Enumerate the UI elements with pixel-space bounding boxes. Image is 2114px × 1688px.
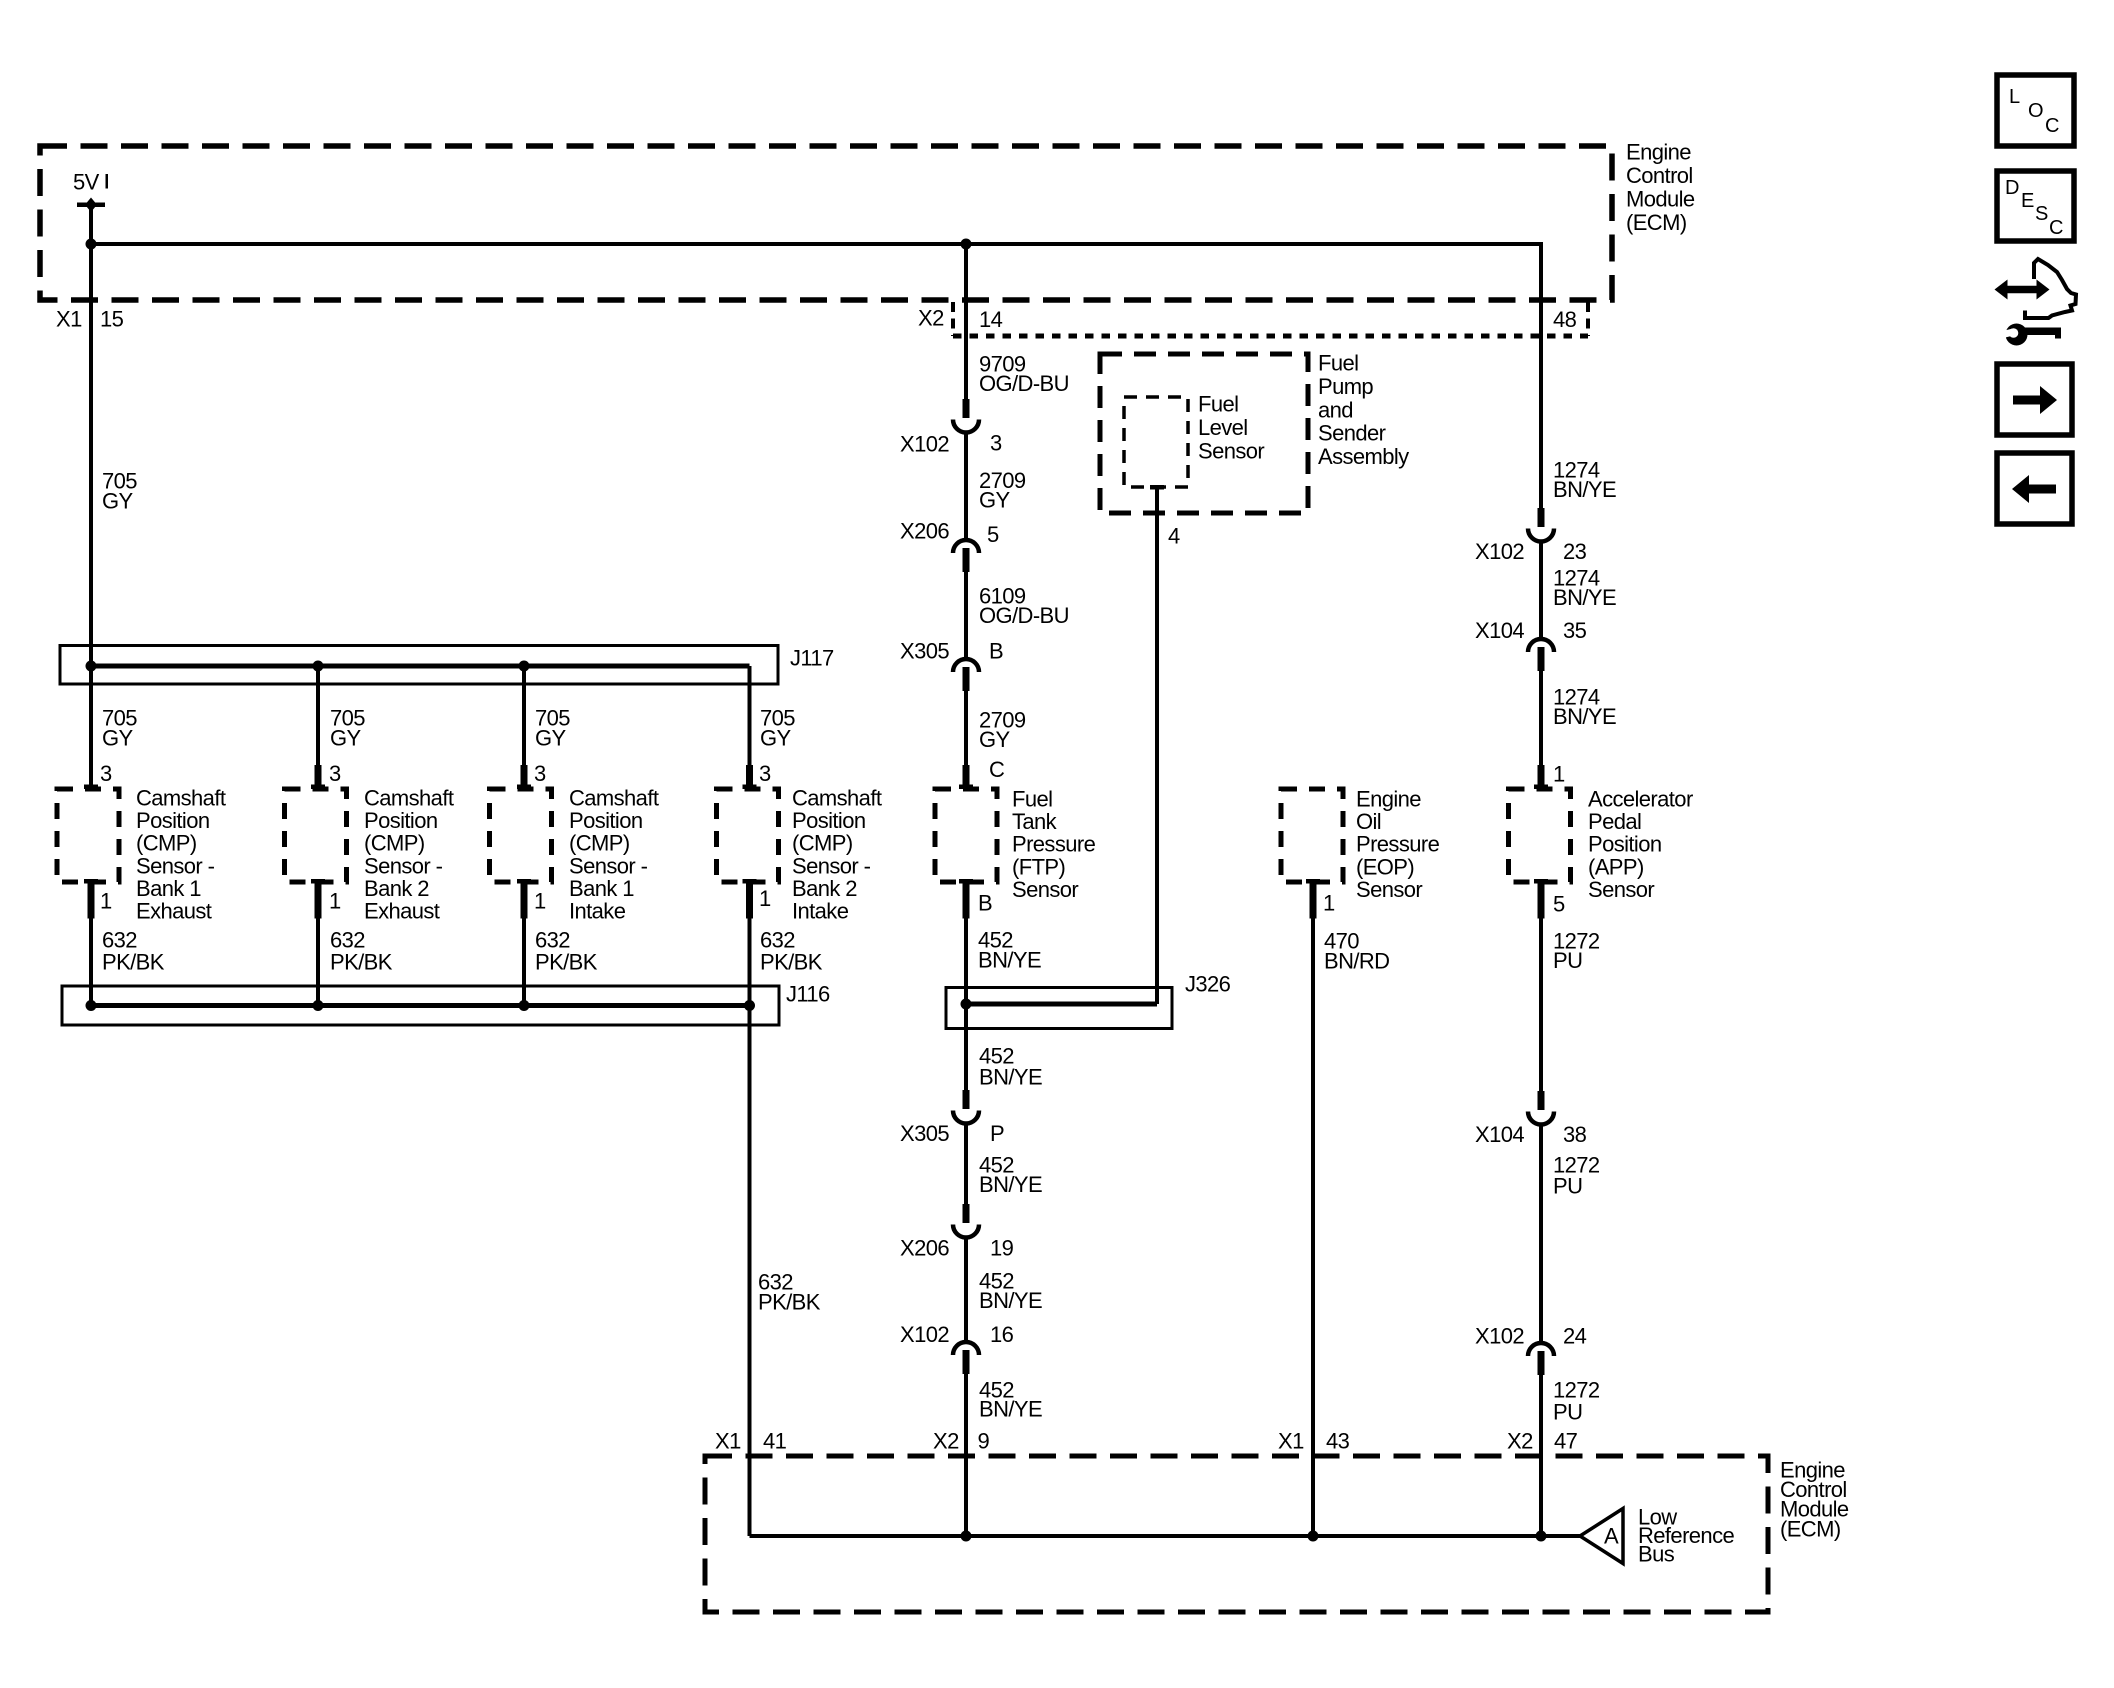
svg-text:(CMP): (CMP) bbox=[569, 831, 630, 856]
svg-text:41: 41 bbox=[763, 1429, 787, 1454]
svg-text:X102: X102 bbox=[900, 432, 949, 457]
svg-text:GY: GY bbox=[760, 726, 792, 751]
svg-text:P: P bbox=[990, 1121, 1004, 1146]
svg-text:OG/D-BU: OG/D-BU bbox=[979, 371, 1069, 396]
pin label X206 19 bbox=[900, 1236, 1014, 1261]
svg-text:B: B bbox=[978, 891, 992, 916]
svg-text:35: 35 bbox=[1563, 618, 1587, 643]
svg-text:4: 4 bbox=[1168, 524, 1180, 549]
module ECM bottom (dashed box) bbox=[705, 1456, 1768, 1612]
label CMP Sensor Bank 1 Intake bbox=[569, 786, 659, 924]
svg-text:Position: Position bbox=[792, 808, 865, 833]
module ECM top (dashed box) bbox=[40, 146, 1612, 300]
svg-text:X305: X305 bbox=[900, 1121, 949, 1146]
svg-text:Position: Position bbox=[1588, 832, 1661, 857]
wire 1274 BN/YE X102 to X104 bbox=[1539, 542, 1543, 639]
node junction J117 wire1 bbox=[86, 661, 97, 672]
svg-text:Camshaft: Camshaft bbox=[364, 786, 454, 811]
svg-text:Sensor -: Sensor - bbox=[364, 853, 443, 878]
wire 705 GY J117 to CMP2 bbox=[311, 666, 325, 789]
svg-text:X1: X1 bbox=[56, 307, 82, 332]
svg-text:(ECM): (ECM) bbox=[1780, 1516, 1841, 1541]
svg-text:and: and bbox=[1318, 397, 1353, 422]
label wire 705 GY at CMP1 bbox=[102, 706, 137, 751]
svg-text:(ECM): (ECM) bbox=[1626, 210, 1687, 235]
module Fuel Pump and Sender Assembly (dashed box) bbox=[1100, 354, 1308, 513]
pin label X305 P bbox=[900, 1121, 1004, 1146]
svg-text:Bank 2: Bank 2 bbox=[364, 876, 429, 901]
svg-text:Intake: Intake bbox=[792, 899, 849, 924]
splice J326 (bus bar) bbox=[946, 988, 1172, 1029]
svg-text:(CMP): (CMP) bbox=[364, 831, 425, 856]
label Fuel Pump and Sender Assembly bbox=[1318, 351, 1409, 470]
pin X1 43 label (bottom ECM) bbox=[1278, 1429, 1350, 1454]
label wire 1274 BN/YE upper bbox=[1553, 458, 1616, 503]
label FTP Sensor bbox=[1012, 787, 1096, 902]
icon button next (right arrow) bbox=[1997, 364, 2072, 435]
svg-text:X104: X104 bbox=[1475, 618, 1524, 643]
svg-text:Pedal: Pedal bbox=[1588, 809, 1641, 834]
pin label X305 B bbox=[900, 639, 1003, 664]
wire 452 BN/YE from fuel level sensor bbox=[1155, 489, 1159, 1004]
svg-text:15: 15 bbox=[100, 307, 124, 332]
svg-text:X102: X102 bbox=[1475, 539, 1524, 564]
label wire 6109 OG/D-BU bbox=[979, 584, 1069, 629]
label wire 470 BN/RD bbox=[1324, 929, 1389, 974]
svg-text:Bank 2: Bank 2 bbox=[792, 876, 857, 901]
icon button DESC bbox=[1997, 171, 2074, 241]
svg-text:PU: PU bbox=[1553, 1174, 1582, 1199]
label EOP Sensor bbox=[1356, 787, 1440, 902]
svg-text:3: 3 bbox=[329, 761, 341, 786]
svg-text:Camshaft: Camshaft bbox=[136, 786, 226, 811]
icon wrench bbox=[1998, 324, 2061, 346]
wire 9709 OG/D-BU from X2-14 bbox=[964, 246, 968, 400]
svg-text:BN/YE: BN/YE bbox=[1553, 585, 1616, 610]
node junction J326 bbox=[961, 999, 972, 1010]
wire 632 PK/BK CMP4 to J116 and ECM X1-41 bbox=[743, 879, 757, 1536]
label wire 452 BN/YE bbox=[979, 1153, 1042, 1198]
node junction bus X2-9 bbox=[961, 1531, 972, 1542]
svg-text:(EOP): (EOP) bbox=[1356, 854, 1414, 879]
label wire 705 GY at CMP3 bbox=[535, 706, 570, 751]
svg-text:J117: J117 bbox=[790, 646, 834, 671]
svg-text:C: C bbox=[2049, 217, 2063, 239]
sensor CMP Bank 1 Intake (dashed box) bbox=[490, 789, 552, 882]
label CMP Sensor Bank 1 Exhaust bbox=[136, 786, 226, 924]
label wire 2709 GY lower bbox=[979, 708, 1026, 753]
icon button LOC bbox=[1997, 75, 2074, 146]
node junction J117 wire3 bbox=[519, 661, 530, 672]
connector X102 pin 24 (inline) bbox=[1528, 1343, 1554, 1375]
label Fuel Level Sensor bbox=[1198, 392, 1264, 464]
svg-text:19: 19 bbox=[990, 1236, 1014, 1261]
pin label X102 23 bbox=[1475, 539, 1587, 564]
connector X2 face (dotted bracket) bbox=[953, 302, 1588, 336]
svg-text:PK/BK: PK/BK bbox=[330, 950, 393, 975]
svg-text:X2: X2 bbox=[918, 306, 944, 331]
wire 1272 PU X102 to ECM X2-47 bbox=[1539, 1373, 1543, 1536]
svg-text:43: 43 bbox=[1326, 1429, 1350, 1454]
splice J117 (bus bar) bbox=[60, 646, 778, 685]
connector X104 pin 38 (inline) bbox=[1528, 1091, 1554, 1125]
svg-text:GY: GY bbox=[979, 488, 1011, 513]
wire 452 BN/YE X206 to X102 bbox=[964, 1238, 968, 1342]
svg-text:PU: PU bbox=[1553, 1400, 1582, 1425]
svg-text:Tank: Tank bbox=[1012, 809, 1058, 834]
svg-text:BN/YE: BN/YE bbox=[979, 1397, 1042, 1422]
svg-text:Pump: Pump bbox=[1318, 374, 1373, 399]
svg-text:Module: Module bbox=[1626, 187, 1695, 212]
svg-text:Fuel: Fuel bbox=[1318, 351, 1358, 376]
svg-text:1: 1 bbox=[1553, 762, 1565, 787]
svg-text:Camshaft: Camshaft bbox=[569, 786, 659, 811]
svg-text:GY: GY bbox=[102, 726, 134, 751]
svg-text:BN/YE: BN/YE bbox=[1553, 477, 1616, 502]
label wire 705 GY at CMP2 bbox=[330, 706, 365, 751]
label wire 632 PK/BK CMP3 bbox=[535, 928, 598, 975]
wire 705 GY J117 to CMP4 bbox=[743, 666, 757, 789]
terminal CMP1 pin 3 bbox=[84, 785, 98, 790]
svg-text:Sensor -: Sensor - bbox=[569, 853, 648, 878]
svg-text:BN/YE: BN/YE bbox=[979, 1172, 1042, 1197]
svg-text:Fuel: Fuel bbox=[1198, 392, 1238, 417]
pin label X102 3 bbox=[900, 431, 1002, 457]
label Engine Control Module (ECM) bottom bbox=[1780, 1458, 1849, 1542]
svg-text:GY: GY bbox=[979, 727, 1011, 752]
svg-text:E: E bbox=[2021, 190, 2034, 212]
svg-text:Position: Position bbox=[569, 808, 642, 833]
wire 1274 BN/YE from X2-48 (corner) bbox=[1539, 242, 1541, 246]
svg-text:Position: Position bbox=[364, 808, 437, 833]
svg-text:Sensor -: Sensor - bbox=[136, 853, 215, 878]
wire 452 BN/YE FTP to J326 bbox=[959, 879, 973, 1090]
svg-text:9: 9 bbox=[978, 1429, 990, 1454]
node junction J116 wire4 bbox=[744, 1000, 755, 1011]
label wire 632 PK/BK to ECM bbox=[758, 1270, 821, 1315]
svg-text:C: C bbox=[989, 757, 1005, 782]
svg-text:Level: Level bbox=[1198, 415, 1248, 440]
svg-text:X1: X1 bbox=[715, 1429, 741, 1454]
pin label X104 35 bbox=[1475, 618, 1587, 643]
node junction bus X2-47 bbox=[1536, 1531, 1547, 1542]
label wire 1272 PU middle bbox=[1553, 1153, 1600, 1199]
label wire 1272 PU lower bbox=[1553, 1378, 1600, 1425]
connector X102 pin 16 (inline) bbox=[953, 1342, 979, 1374]
svg-text:23: 23 bbox=[1563, 539, 1587, 564]
pin X2 9 label (bottom ECM) bbox=[933, 1429, 990, 1454]
svg-text:5: 5 bbox=[987, 522, 999, 547]
svg-text:1: 1 bbox=[759, 886, 771, 911]
svg-text:X206: X206 bbox=[900, 519, 949, 544]
label wire 632 PK/BK CMP4 bbox=[760, 928, 823, 975]
wire 705 GY J117 to CMP3 bbox=[517, 666, 531, 789]
svg-text:Camshaft: Camshaft bbox=[792, 786, 882, 811]
svg-text:Accelerator: Accelerator bbox=[1588, 787, 1693, 812]
svg-text:48: 48 bbox=[1553, 307, 1577, 332]
icon button previous (left arrow) bbox=[1997, 453, 2072, 524]
svg-text:Bus: Bus bbox=[1638, 1541, 1675, 1566]
svg-text:(CMP): (CMP) bbox=[136, 831, 197, 856]
svg-text:Oil: Oil bbox=[1356, 809, 1381, 834]
component Fuel Level Sensor (dashed box) bbox=[1124, 397, 1188, 487]
svg-text:3: 3 bbox=[100, 761, 112, 786]
node junction J117 wire2 bbox=[313, 661, 324, 672]
svg-text:Exhaust: Exhaust bbox=[136, 899, 212, 924]
svg-text:Exhaust: Exhaust bbox=[364, 899, 440, 924]
pin X1 41 label (bottom ECM) bbox=[715, 1429, 787, 1454]
wire 5V feed drop bbox=[89, 205, 93, 244]
power 5V supply symbol bbox=[73, 170, 108, 213]
connector X102 pin 23 (inline) bbox=[1528, 508, 1554, 542]
svg-text:Control: Control bbox=[1626, 163, 1693, 188]
svg-text:1: 1 bbox=[100, 889, 112, 914]
label wire 9709 OG/D-BU bbox=[979, 352, 1069, 397]
splice J116 (bus bar) bbox=[62, 986, 779, 1025]
svg-text:D: D bbox=[2005, 177, 2019, 199]
wire low reference bus (horizontal) bbox=[750, 1534, 1581, 1538]
svg-text:1: 1 bbox=[1323, 891, 1335, 916]
svg-text:PK/BK: PK/BK bbox=[758, 1290, 821, 1315]
terminal fuel level sensor pin 4 bbox=[1150, 485, 1164, 490]
wire 452 BN/YE X305 to X206 bbox=[964, 1124, 968, 1205]
pin label X104 38 bbox=[1475, 1122, 1587, 1147]
label wire 632 PK/BK CMP1 bbox=[102, 928, 165, 975]
wire 632 PK/BK CMP3 to J116 bbox=[517, 879, 531, 1006]
svg-text:Bank 1: Bank 1 bbox=[136, 876, 201, 901]
svg-text:Sensor: Sensor bbox=[1012, 877, 1078, 902]
label wire 632 PK/BK CMP2 bbox=[330, 928, 393, 975]
svg-text:X102: X102 bbox=[900, 1322, 949, 1347]
connector X102 pin 3 (inline) bbox=[953, 399, 979, 433]
label APP Sensor bbox=[1588, 787, 1693, 902]
svg-text:3: 3 bbox=[759, 761, 771, 786]
svg-text:C: C bbox=[2045, 115, 2059, 137]
svg-text:X102: X102 bbox=[1475, 1324, 1524, 1349]
label wire 452 BN/YE below J326 bbox=[979, 1044, 1042, 1090]
svg-text:(APP): (APP) bbox=[1588, 854, 1644, 879]
node junction J116 wire2 bbox=[313, 1000, 324, 1011]
label CMP Sensor Bank 2 Exhaust bbox=[364, 786, 454, 924]
svg-text:B: B bbox=[989, 639, 1003, 664]
label Low Reference Bus bbox=[1638, 1505, 1734, 1567]
connector X305 pin B (inline) bbox=[953, 659, 979, 691]
svg-text:Sensor -: Sensor - bbox=[792, 853, 871, 878]
svg-text:Sensor: Sensor bbox=[1356, 877, 1422, 902]
svg-text:X1: X1 bbox=[1278, 1429, 1304, 1454]
sensor CMP Bank 2 Exhaust (dashed box) bbox=[285, 789, 347, 882]
svg-text:O: O bbox=[2028, 100, 2043, 122]
svg-text:(CMP): (CMP) bbox=[792, 831, 853, 856]
pin X2 47 label (bottom ECM) bbox=[1507, 1429, 1578, 1454]
svg-text:BN/YE: BN/YE bbox=[978, 948, 1041, 973]
pin label X102 24 bbox=[1475, 1324, 1587, 1349]
sensor CMP Bank 2 Intake (dashed box) bbox=[717, 789, 779, 882]
svg-text:Fuel: Fuel bbox=[1012, 787, 1052, 812]
wire 1274 BN/YE X104 to APP sensor bbox=[1534, 669, 1548, 789]
svg-text:A: A bbox=[1604, 1524, 1619, 1549]
svg-text:GY: GY bbox=[102, 489, 134, 514]
wire 2709 GY X305 to FTP sensor bbox=[959, 689, 973, 789]
label wire 705 GY at CMP4 bbox=[760, 706, 795, 751]
svg-text:J116: J116 bbox=[786, 982, 830, 1007]
sensor CMP Bank 1 Exhaust (dashed box) bbox=[57, 789, 119, 882]
wire 2709 GY X102 to X206 bbox=[964, 433, 968, 540]
node junction J116 wire3 bbox=[519, 1000, 530, 1011]
svg-text:J326: J326 bbox=[1185, 972, 1231, 997]
node junction bus X1-43 bbox=[1308, 1531, 1319, 1542]
svg-text:X2: X2 bbox=[933, 1429, 959, 1454]
svg-text:3: 3 bbox=[534, 761, 546, 786]
svg-text:(FTP): (FTP) bbox=[1012, 854, 1065, 879]
svg-text:38: 38 bbox=[1563, 1122, 1587, 1147]
svg-text:Intake: Intake bbox=[569, 899, 626, 924]
svg-text:Sender: Sender bbox=[1318, 421, 1386, 446]
pin label X102 16 bbox=[900, 1322, 1014, 1347]
svg-text:X2: X2 bbox=[1507, 1429, 1533, 1454]
svg-text:OG/D-BU: OG/D-BU bbox=[979, 603, 1069, 628]
wire 6109 OG/D-BU X206 to X305 bbox=[964, 570, 968, 659]
svg-text:Sensor: Sensor bbox=[1588, 877, 1654, 902]
label wire 452 BN/YE lower bbox=[979, 1378, 1042, 1422]
label wire 452 BN/YE above J326 bbox=[978, 928, 1041, 973]
connector X206 pin 19 (inline) bbox=[953, 1204, 979, 1238]
wire 632 PK/BK CMP2 to J116 bbox=[311, 879, 325, 1006]
wire 705 GY from X1-15 down to J117 and CMP1 bbox=[89, 246, 93, 785]
svg-text:GY: GY bbox=[330, 726, 362, 751]
svg-text:L: L bbox=[2009, 86, 2020, 108]
label wire 705 GY (upper) bbox=[102, 469, 137, 514]
sensor Accelerator Pedal Position APP (dashed box) bbox=[1509, 789, 1571, 882]
svg-text:Sensor: Sensor bbox=[1198, 438, 1264, 463]
svg-text:BN/RD: BN/RD bbox=[1324, 949, 1389, 974]
svg-text:BN/YE: BN/YE bbox=[979, 1065, 1042, 1090]
label wire 452 BN/YE bbox=[979, 1269, 1042, 1314]
svg-text:16: 16 bbox=[990, 1322, 1014, 1347]
svg-text:X206: X206 bbox=[900, 1236, 949, 1261]
label wire 1274 BN/YE middle bbox=[1553, 566, 1616, 611]
node junction J116 wire1 bbox=[86, 1000, 97, 1011]
svg-text:Engine: Engine bbox=[1626, 140, 1691, 165]
connector X206 pin 5 (inline) bbox=[953, 540, 979, 572]
label wire 1274 BN/YE lower bbox=[1553, 685, 1616, 730]
svg-text:Pressure: Pressure bbox=[1356, 832, 1440, 857]
label wire 1272 PU upper bbox=[1553, 929, 1600, 974]
svg-text:PK/BK: PK/BK bbox=[102, 950, 165, 975]
svg-text:5V: 5V bbox=[73, 170, 100, 195]
svg-text:BN/YE: BN/YE bbox=[1553, 704, 1616, 729]
connector X305 pin P (inline) bbox=[953, 1090, 979, 1124]
wire 1272 PU X104 to X102 bbox=[1539, 1125, 1543, 1343]
svg-text:S: S bbox=[2035, 203, 2048, 225]
label Engine Control Module (ECM) top bbox=[1626, 140, 1695, 236]
svg-text:X104: X104 bbox=[1475, 1122, 1524, 1147]
svg-text:1: 1 bbox=[329, 889, 341, 914]
icon vehicle data exchange (car outline) bbox=[2025, 259, 2076, 318]
svg-text:BN/YE: BN/YE bbox=[979, 1288, 1042, 1313]
wire 452 BN/YE X102 to ECM X2-9 bbox=[964, 1372, 968, 1536]
pin X2 14 label bbox=[918, 306, 1003, 333]
svg-text:14: 14 bbox=[979, 307, 1003, 332]
sensor Engine Oil Pressure EOP (dashed box) bbox=[1281, 789, 1343, 882]
svg-text:X305: X305 bbox=[900, 639, 949, 664]
svg-text:47: 47 bbox=[1554, 1429, 1578, 1454]
connector X104 pin 35 (inline) bbox=[1528, 639, 1554, 671]
svg-text:PK/BK: PK/BK bbox=[760, 950, 823, 975]
label CMP Sensor Bank 2 Intake bbox=[792, 786, 882, 924]
svg-text:PK/BK: PK/BK bbox=[535, 950, 598, 975]
svg-text:PU: PU bbox=[1553, 948, 1582, 973]
svg-text:24: 24 bbox=[1563, 1324, 1587, 1349]
wire 470 BN/RD EOP to ECM X1-43 bbox=[1306, 879, 1320, 1536]
svg-text:5: 5 bbox=[1553, 892, 1565, 917]
node junction 5V rail left bbox=[86, 239, 97, 250]
wire 1272 PU APP to X104 bbox=[1534, 879, 1548, 1091]
wire 632 PK/BK CMP1 to J116 bbox=[84, 879, 98, 1006]
svg-text:Engine: Engine bbox=[1356, 787, 1421, 812]
svg-text:3: 3 bbox=[990, 431, 1002, 456]
symbol low reference bus triangle A bbox=[1580, 1509, 1623, 1564]
svg-text:Position: Position bbox=[136, 808, 209, 833]
svg-text:Pressure: Pressure bbox=[1012, 832, 1096, 857]
svg-text:Assembly: Assembly bbox=[1318, 444, 1409, 469]
pin label X206 5 bbox=[900, 519, 999, 548]
wire 5V reference rail (horizontal) bbox=[91, 242, 1541, 246]
icon double arrow bbox=[1995, 280, 2050, 300]
label wire 2709 GY bbox=[979, 468, 1026, 513]
svg-text:GY: GY bbox=[535, 726, 567, 751]
svg-text:1: 1 bbox=[534, 889, 546, 914]
svg-text:Bank 1: Bank 1 bbox=[569, 876, 634, 901]
sensor Fuel Tank Pressure FTP (dashed box) bbox=[935, 789, 997, 882]
pin X1 15 label bbox=[56, 307, 124, 332]
node junction 5V rail middle tap bbox=[961, 239, 972, 250]
